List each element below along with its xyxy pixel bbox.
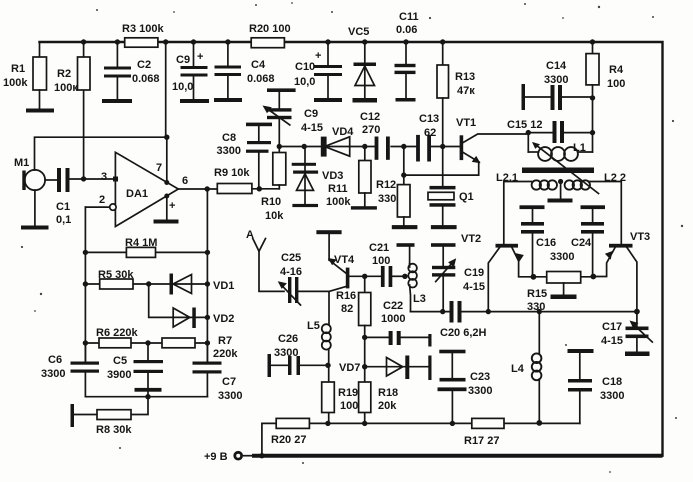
svg-text:R16: R16 xyxy=(336,290,356,302)
svg-text:+: + xyxy=(197,51,203,63)
svg-text:4-16: 4-16 xyxy=(280,266,302,278)
svg-text:C12: C12 xyxy=(360,111,380,123)
svg-text:R15: R15 xyxy=(527,288,547,300)
svg-text:C6: C6 xyxy=(48,354,62,366)
svg-text:R20 100: R20 100 xyxy=(249,23,291,35)
svg-text:L3: L3 xyxy=(413,293,426,305)
svg-text:6: 6 xyxy=(182,175,188,187)
svg-text:R2: R2 xyxy=(57,68,71,80)
svg-text:C26: C26 xyxy=(278,333,298,345)
svg-text:VT1: VT1 xyxy=(456,117,476,129)
svg-text:C22: C22 xyxy=(383,300,403,312)
svg-text:3300: 3300 xyxy=(600,390,624,402)
svg-text:VD1: VD1 xyxy=(213,280,234,292)
svg-text:C19: C19 xyxy=(464,267,484,279)
svg-text:R6 220k: R6 220k xyxy=(96,327,138,339)
svg-text:3300: 3300 xyxy=(544,74,568,86)
svg-text:C5: C5 xyxy=(113,355,127,367)
svg-text:C9: C9 xyxy=(304,108,318,120)
svg-text:100к: 100к xyxy=(54,82,78,94)
svg-text:10,0: 10,0 xyxy=(172,81,193,93)
svg-text:330: 330 xyxy=(378,193,396,205)
svg-text:VC5: VC5 xyxy=(348,26,369,38)
svg-text:VD2: VD2 xyxy=(213,313,234,325)
svg-text:0.068: 0.068 xyxy=(247,73,275,85)
svg-text:R5 30k: R5 30k xyxy=(98,269,134,281)
svg-text:3300: 3300 xyxy=(468,385,492,397)
svg-text:C9: C9 xyxy=(176,54,190,66)
svg-text:R3 100k: R3 100k xyxy=(122,23,164,35)
svg-text:VT4: VT4 xyxy=(334,254,355,266)
svg-text:3300: 3300 xyxy=(218,390,242,402)
svg-text:C11: C11 xyxy=(399,11,419,23)
svg-text:C15 12: C15 12 xyxy=(507,119,542,131)
svg-text:M1: M1 xyxy=(14,157,29,169)
svg-text:C8: C8 xyxy=(222,132,236,144)
svg-text:R17 27: R17 27 xyxy=(464,435,499,447)
svg-text:3900: 3900 xyxy=(107,369,131,381)
svg-text:C23: C23 xyxy=(470,371,490,383)
svg-text:+9 В: +9 В xyxy=(204,451,228,463)
svg-text:3300: 3300 xyxy=(41,368,65,380)
svg-text:100: 100 xyxy=(372,255,390,267)
svg-text:C7: C7 xyxy=(222,376,236,388)
svg-text:C20 6,2Н: C20 6,2Н xyxy=(440,327,487,339)
svg-text:C10: C10 xyxy=(295,61,315,73)
svg-text:C1: C1 xyxy=(56,201,70,213)
svg-text:C17: C17 xyxy=(602,321,622,333)
svg-text:C2: C2 xyxy=(137,59,151,71)
svg-text:C18: C18 xyxy=(602,376,622,388)
svg-text:VD3: VD3 xyxy=(322,170,343,182)
svg-text:R12: R12 xyxy=(376,179,396,191)
svg-text:4-15: 4-15 xyxy=(301,122,323,134)
svg-text:3300: 3300 xyxy=(550,251,574,263)
svg-text:C21: C21 xyxy=(369,242,389,254)
svg-text:R8 30k: R8 30k xyxy=(96,424,132,436)
svg-text:VD7: VD7 xyxy=(339,362,360,374)
svg-text:R18: R18 xyxy=(378,387,398,399)
svg-text:L1: L1 xyxy=(573,142,586,154)
svg-text:L5: L5 xyxy=(307,320,320,332)
svg-text:3300: 3300 xyxy=(274,347,298,359)
svg-text:R7: R7 xyxy=(218,335,232,347)
svg-text:C4: C4 xyxy=(251,59,266,71)
svg-text:0.068: 0.068 xyxy=(132,73,160,85)
svg-text:R1: R1 xyxy=(11,63,25,75)
svg-text:R19: R19 xyxy=(338,387,358,399)
svg-text:+: + xyxy=(315,50,321,62)
svg-text:10k: 10k xyxy=(265,210,284,222)
svg-text:C13: C13 xyxy=(419,113,439,125)
svg-text:100: 100 xyxy=(607,78,625,90)
svg-text:C16: C16 xyxy=(536,237,556,249)
svg-text:82: 82 xyxy=(341,303,353,315)
svg-text:C25: C25 xyxy=(281,252,301,264)
svg-text:+: + xyxy=(169,200,175,212)
svg-text:R4: R4 xyxy=(609,64,624,76)
svg-text:2: 2 xyxy=(99,194,105,206)
svg-text:VT2: VT2 xyxy=(461,233,481,245)
svg-text:100k: 100k xyxy=(3,77,28,89)
svg-text:R11: R11 xyxy=(328,183,348,195)
svg-text:4-15: 4-15 xyxy=(601,335,623,347)
svg-text:10,0: 10,0 xyxy=(294,76,315,88)
svg-text:270: 270 xyxy=(362,124,380,136)
svg-text:L4: L4 xyxy=(511,363,525,375)
svg-text:7: 7 xyxy=(156,162,162,174)
svg-text:DA1: DA1 xyxy=(126,188,148,200)
svg-text:4-15: 4-15 xyxy=(463,281,485,293)
svg-text:3300: 3300 xyxy=(217,145,241,157)
svg-text:20k: 20k xyxy=(378,400,397,412)
svg-text:R13: R13 xyxy=(455,71,475,83)
svg-text:0.06: 0.06 xyxy=(396,24,417,36)
svg-text:Q1: Q1 xyxy=(459,191,474,203)
svg-text:R10: R10 xyxy=(261,196,281,208)
svg-text:0,1: 0,1 xyxy=(56,214,71,226)
svg-text:1000: 1000 xyxy=(381,313,405,325)
svg-text:100k: 100k xyxy=(326,196,351,208)
svg-text:C24: C24 xyxy=(571,237,592,249)
svg-text:R4 1M: R4 1M xyxy=(125,237,157,249)
svg-text:VD4: VD4 xyxy=(332,126,354,138)
svg-text:R9 10k: R9 10k xyxy=(214,167,250,179)
svg-text:C14: C14 xyxy=(546,60,567,72)
svg-text:VT3: VT3 xyxy=(630,231,650,243)
svg-text:3: 3 xyxy=(101,171,107,183)
svg-text:R20 27: R20 27 xyxy=(271,434,306,446)
svg-text:A: A xyxy=(246,229,254,241)
svg-text:47к: 47к xyxy=(457,85,475,97)
svg-text:62: 62 xyxy=(424,127,436,139)
svg-text:100: 100 xyxy=(340,400,358,412)
svg-text:220k: 220k xyxy=(213,348,238,360)
